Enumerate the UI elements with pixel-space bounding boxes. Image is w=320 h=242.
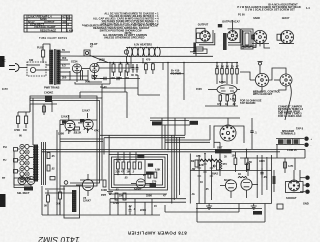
tube socket diagram V2	[228, 20, 238, 41]
feedback loop 2	[64, 101, 100, 184]
dropping resistor R20	[216, 63, 219, 85]
B+ bus right	[170, 63, 184, 101]
primary wires	[43, 44, 50, 82]
socket V2 label	[222, 20, 240, 24]
connector shield diagram	[241, 29, 253, 49]
preamp tube V10	[60, 115, 75, 135]
dropping resistor R22	[226, 63, 229, 85]
mid coupling wires	[80, 70, 160, 118]
secondary taps	[60, 52, 126, 80]
driver tube V13	[131, 179, 151, 191]
rectifier V6 / pilot	[88, 63, 102, 82]
driver resistor Re	[139, 162, 142, 169]
coupling caps bottom	[129, 206, 136, 215]
binding post T2	[303, 183, 310, 187]
fb resistor	[273, 170, 276, 192]
driver components row2	[148, 172, 157, 183]
bottom right dark label	[253, 211, 262, 215]
ground G2	[251, 204, 257, 210]
rectifier output wires	[75, 63, 238, 85]
bias box extras	[45, 177, 72, 216]
rectifier V5	[70, 60, 88, 83]
out stage left vertical	[190, 154, 199, 204]
tube socket diagram V1	[197, 31, 211, 41]
AC plug	[9, 64, 27, 72]
socket V3 label	[253, 16, 260, 20]
right mid text label B	[240, 99, 262, 105]
inter-socket dark label	[218, 24, 222, 27]
driver resistor Rd	[132, 162, 136, 173]
tap selector box	[81, 50, 109, 80]
mid extra wires	[57, 56, 131, 215]
screen zigzag R43	[238, 172, 247, 178]
driver extra darks	[107, 172, 167, 195]
power transformer T1	[44, 49, 60, 90]
parts table	[24, 15, 74, 33]
out tube socket V16	[220, 118, 236, 141]
V7 extra labels	[196, 87, 236, 101]
ground G1	[206, 204, 212, 210]
tube V9	[274, 70, 292, 86]
bias resistor R30	[44, 190, 50, 215]
dropping resistor R23	[231, 63, 234, 85]
input labels	[2, 134, 22, 181]
bottom small tube V14	[18, 177, 26, 185]
driver dark label	[137, 155, 144, 158]
bottom mid components	[110, 193, 186, 215]
V7 cathode resistors	[205, 92, 238, 106]
left mid stage wires	[30, 101, 57, 116]
driver stage box outer	[109, 155, 168, 191]
out res R41	[232, 152, 237, 172]
speaker strip label	[281, 129, 296, 135]
binding post T3	[300, 190, 310, 194]
bottom right labels	[191, 155, 267, 185]
filter resistor R11	[118, 63, 123, 80]
bottom dark component	[17, 187, 33, 196]
right lower text block	[278, 105, 304, 119]
socket C under wires	[243, 44, 270, 49]
out cathode resistor R40	[220, 154, 227, 177]
output tube V17	[220, 178, 237, 198]
post label	[277, 202, 309, 210]
fb divider wires	[247, 158, 295, 176]
transformer tap labels	[62, 48, 67, 80]
tube socket diagram V3	[252, 30, 269, 46]
grid resistor R1	[14, 112, 20, 132]
screen resistor band	[200, 159, 222, 161]
heater winding chain	[124, 43, 213, 63]
bottom right bus	[196, 154, 272, 204]
driver stage box mid	[112, 157, 166, 188]
preamp tube V11	[78, 109, 93, 134]
driver internal wires	[114, 152, 146, 184]
socket V2 wrap wires	[228, 29, 243, 45]
fuse F1	[37, 44, 45, 63]
socket V1 hatch bar	[193, 43, 207, 54]
filter caps C20	[131, 64, 138, 77]
title upside down	[127, 231, 187, 236]
mid vertical feed	[150, 63, 240, 150]
wire ticks	[196, 154, 213, 191]
bottom bus	[42, 186, 160, 215]
inter-socket zigzag	[241, 44, 256, 48]
bottom small tube V15	[27, 177, 35, 185]
table caption	[39, 37, 67, 40]
bus junction dots	[167, 62, 247, 155]
tone caps C5 C6	[47, 153, 55, 172]
jack strip resistors	[14, 148, 32, 188]
B+ node wires	[110, 58, 163, 84]
main bus B	[42, 151, 280, 153]
V10 V11 coupling parts	[60, 125, 80, 136]
corner mark	[306, 6, 310, 10]
coupling cap block	[44, 91, 53, 103]
driver box labels	[116, 158, 161, 180]
feedback loop outer	[30, 96, 97, 186]
driver resistor Rb	[121, 162, 125, 173]
bias supply box	[64, 186, 80, 218]
right vertical group	[100, 135, 185, 204]
note mark right of table	[82, 23, 84, 27]
terminal post	[258, 62, 263, 74]
twin triode V7	[208, 80, 240, 94]
speaker post minus	[304, 143, 311, 148]
upper mid labels	[85, 58, 151, 90]
driver resistor Ra	[116, 162, 121, 173]
driver dark label 2	[148, 163, 153, 166]
screen bus	[190, 160, 271, 170]
switch wires	[29, 130, 57, 185]
bias choke	[72, 190, 76, 212]
mid bus wires	[150, 121, 220, 150]
coupling cap C30	[250, 118, 257, 149]
output socket V19	[286, 170, 304, 200]
dark label mid	[190, 121, 199, 125]
bias resistor R31	[56, 186, 62, 215]
selector switch SW2	[33, 145, 38, 182]
bottom frame wire	[197, 204, 265, 223]
mid small resistor Rm2	[152, 63, 155, 75]
V16 wrap wires	[214, 126, 244, 148]
heater rail drop	[190, 48, 196, 57]
feedback loop 3	[80, 98, 102, 180]
bottom stage verticals	[118, 194, 157, 216]
mid coupling cap Cb	[117, 77, 119, 80]
scan mark left upper	[0, 56, 5, 67]
socket V4 label	[282, 16, 290, 20]
right mid text label A	[253, 90, 281, 96]
bias pot	[212, 162, 220, 176]
filter node dots	[109, 62, 144, 64]
triangle symbol	[93, 76, 97, 79]
loop horizontals mid	[60, 139, 103, 142]
mid coupling cap Ca	[100, 77, 106, 80]
binding post T1	[300, 176, 310, 180]
speaker post plus	[304, 137, 312, 142]
dark label mid2	[152, 121, 162, 125]
socket V1 wrap wires	[196, 28, 215, 45]
dropping resistor R24	[236, 63, 239, 85]
speaker label below	[277, 127, 304, 158]
driver resistor Rc	[127, 162, 131, 173]
driver stage box inner	[114, 160, 163, 186]
bottom mid labels	[101, 188, 166, 198]
handwritten number upside down	[38, 235, 79, 242]
socket V1 label	[198, 23, 209, 27]
V10 V11 under labels	[58, 129, 99, 136]
bus terminal	[171, 69, 181, 76]
scan mark left lower	[0, 194, 6, 207]
cap C40	[260, 168, 263, 178]
output tube V18	[241, 179, 258, 198]
speaker terminal strip	[276, 139, 304, 145]
tube socket diagram V4	[277, 30, 294, 43]
V12 plate resistor	[101, 180, 107, 192]
mid small resistor Rm1	[145, 63, 148, 75]
filter resistor R12	[125, 63, 130, 80]
bias adjustment notes	[237, 2, 301, 16]
socket V2 hatch bar	[223, 33, 227, 50]
main bus A	[42, 148, 305, 150]
extra vertical left	[59, 142, 61, 187]
lower buses	[165, 204, 262, 213]
tube V8	[250, 73, 269, 86]
heater labels	[90, 42, 98, 49]
V16 label	[215, 146, 232, 154]
dropping resistor R21	[221, 63, 224, 85]
grid resistor R2	[23, 112, 28, 132]
mid extra wires2	[2, 59, 138, 99]
filter resistor R10	[111, 63, 116, 80]
preamp wires top	[18, 98, 80, 145]
line switch S1	[27, 58, 46, 76]
notes text block	[84, 12, 159, 40]
input jack strip	[20, 144, 29, 181]
right edge bus	[240, 149, 305, 158]
phase inv tube V12	[76, 174, 94, 203]
out res R42	[245, 149, 252, 172]
mid right feed wires	[162, 118, 190, 149]
V8 V9 connecting wires	[240, 68, 291, 120]
